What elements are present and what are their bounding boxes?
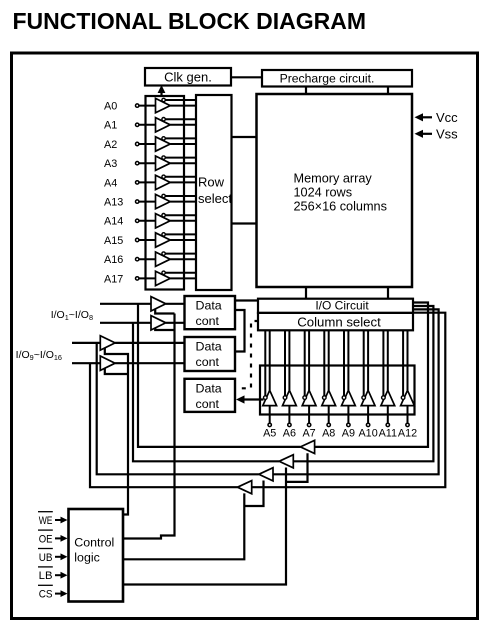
wire pad3 to driver T3 [97,343,259,474]
control input UB [38,549,68,564]
wire memory-iocircuit stub left [305,287,307,299]
address input A17 [104,271,196,286]
svg-text:OE: OE [39,533,53,545]
dashed wire column select to datacont3 [235,321,259,388]
svg-text:Precharge circuit.: Precharge circuit. [280,71,375,85]
wire T4 enable vertical to control [123,493,244,559]
wire pad4 to driver T4 [90,363,238,487]
svg-text:I/O1~I/O8: I/O1~I/O8 [51,309,93,322]
svg-text:I/O Circuit: I/O Circuit [315,298,369,312]
control input OE [38,530,68,545]
memory array box [257,94,413,287]
wire memory-iocircuit stub right [387,287,389,299]
wire rowselect-memory upper [232,136,257,138]
column address buffer A7 [302,330,316,426]
svg-text:logic: logic [74,550,99,564]
svg-text:cont: cont [196,314,220,328]
svg-text:cont: cont [196,355,220,369]
svg-text:Memory array: Memory array [294,172,373,186]
output driver T1 [300,440,314,453]
input buffer I/O1-8 #1 [151,297,166,311]
column address buffer A5 [263,330,277,426]
I/O9-16 pad line 1 [72,342,100,344]
address input A15 [104,233,196,248]
svg-text:A11: A11 [379,428,397,440]
svg-text:LB: LB [39,570,53,582]
wire buffer2 enable L [155,328,174,331]
svg-text:A6: A6 [283,428,296,440]
input buffer I/O9-16 #1 [100,336,115,350]
svg-text:CS: CS [39,589,53,601]
arrow into datacont3 [243,398,264,400]
svg-text:A15: A15 [104,235,123,247]
control logic box [69,509,124,602]
control input WE [38,512,68,527]
precharge circuit box [262,70,412,87]
Vss arrow line [419,133,432,135]
svg-text:A2: A2 [104,139,117,151]
svg-text:A17: A17 [104,273,123,285]
wire datacont1 to I/O circuit [235,299,258,301]
wire pad1 to driver T1 [138,304,300,447]
svg-text:A13: A13 [104,197,123,209]
wire T1 enable L [286,453,308,482]
svg-text:Clk gen.: Clk gen. [164,70,212,85]
wire I/O circuit to driver T2 [293,306,433,461]
wire buffer1 enable L [155,309,174,314]
wire buffer4 enable L [105,369,128,375]
I/O circuit box [258,299,413,313]
svg-text:Vcc: Vcc [436,110,458,125]
wire I/O circuit to driver T3 [273,309,439,474]
column address buffer A10 [361,330,375,426]
data cont box 1 [185,296,236,329]
svg-text:WE: WE [39,515,53,527]
wire precharge-memory stub right [387,87,389,95]
input buffer I/O9-16 #2 [100,356,115,370]
svg-text:A10: A10 [358,428,377,440]
I/O9-16 pad line 2 [72,362,100,364]
control input CS [38,585,68,600]
svg-text:A8: A8 [322,428,335,440]
svg-text:A12: A12 [398,428,417,440]
clk gen box [145,68,231,86]
svg-text:UB: UB [39,552,53,564]
wire datacont1 to datacont2 jog [235,310,245,352]
control input LB [38,567,68,582]
column select box [258,313,413,330]
address input A1 [104,118,196,133]
column address buffer A12 [401,330,415,426]
wire buffer3 enable L [105,348,128,515]
column address buffer A6 [283,330,297,426]
column address buffer A9 [342,330,356,426]
wire T2 enable vertical to control [123,468,286,585]
output driver T2 [279,455,293,468]
output driver T3 [259,468,273,481]
svg-text:Data: Data [196,381,222,395]
wire T3 enable L [244,481,263,507]
address buffer box [146,96,185,290]
column address buffer A8 [322,330,336,426]
svg-text:Vss: Vss [436,127,458,142]
svg-text:A0: A0 [104,101,117,113]
address input A14 [104,214,196,229]
address input A3 [104,156,196,170]
svg-text:A3: A3 [104,158,117,170]
I/O1-8 pad line 1 [100,303,151,305]
svg-text:1024 rows: 1024 rows [294,186,353,200]
data cont box 2 [185,337,236,371]
address input A16 [104,252,196,266]
svg-text:Data: Data [196,340,222,354]
svg-text:FUNCTIONAL BLOCK DIAGRAM: FUNCTIONAL BLOCK DIAGRAM [13,8,367,34]
svg-text:A4: A4 [104,177,117,189]
svg-text:256×16 columns: 256×16 columns [294,199,387,213]
input buffer I/O1-8 #2 [151,316,166,330]
address input A0 [104,98,196,113]
svg-text:Row: Row [198,175,225,190]
wire I/O circuit to driver T1 [315,303,428,447]
data cont box 3 [185,379,236,412]
svg-text:A16: A16 [104,254,123,266]
row select box [196,95,232,290]
I/O1-8 pad line 2 [100,322,151,324]
address input A2 [104,137,196,152]
address input A13 [104,194,196,209]
Vcc arrowhead [415,113,424,121]
column address buffer A11 [381,330,395,426]
wire pad2 to driver T2 [133,323,279,462]
wire rowselect-memory lower [232,222,257,224]
wire I/O circuit to driver T4 [252,313,446,488]
svg-text:A14: A14 [104,216,123,228]
wire enable vertical to control [123,314,175,539]
svg-text:cont: cont [196,397,220,411]
svg-text:I/O9~I/O16: I/O9~I/O16 [16,349,62,362]
wire clkgen-precharge [231,76,262,78]
svg-text:Data: Data [196,299,222,313]
arrow addrbox to clkgen [160,90,162,97]
svg-text:A7: A7 [302,428,315,440]
svg-text:Control: Control [74,536,114,550]
Vss arrowhead [415,130,424,138]
svg-text:A5: A5 [263,428,276,440]
svg-text:select: select [198,191,232,206]
output driver T4 [238,481,252,494]
svg-text:A1: A1 [104,120,117,132]
wire precharge-memory stub left [305,87,307,95]
svg-text:Column select: Column select [297,314,381,329]
address input A4 [104,175,196,190]
Vcc arrow line [419,116,432,118]
svg-text:A9: A9 [342,428,355,440]
column buffer box [260,366,415,415]
